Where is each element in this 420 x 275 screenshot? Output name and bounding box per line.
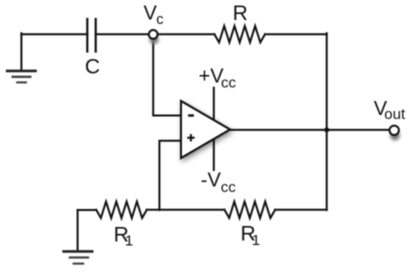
wire output	[230, 129, 390, 131]
resistor R1 (right)	[225, 202, 276, 218]
wire R1 right to right rail	[275, 209, 327, 211]
svg-text:R: R	[233, 2, 248, 25]
wire inverting input from node Vc	[153, 39, 180, 116]
ground (top-left)	[7, 71, 35, 83]
svg-text:1: 1	[125, 233, 133, 250]
wire ground drop top-left	[20, 33, 22, 70]
wire +Vcc supply lead	[213, 88, 215, 125]
capacitor C	[87, 19, 95, 52]
wire R1 left to junction to R1 right	[147, 209, 225, 211]
wire non-inverting input from R1 junction	[159, 141, 180, 210]
wire resistor R to right rail	[265, 33, 327, 35]
svg-text:cc: cc	[221, 75, 237, 92]
resistor R1 (left)	[96, 202, 147, 218]
wire top rail left	[21, 33, 87, 35]
resistor R	[214, 26, 265, 42]
wire node Vc to resistor R	[158, 33, 215, 35]
wire right rail vertical	[326, 33, 328, 210]
output terminal circle	[390, 131, 400, 141]
svg-text:cc: cc	[221, 179, 237, 196]
op-amp non-inverting pin +	[187, 134, 195, 141]
ground (bottom-left)	[64, 251, 93, 263]
node Vc terminal circle	[149, 35, 158, 44]
wire ground drop bottom-left	[77, 210, 79, 251]
svg-text:out: out	[384, 106, 406, 123]
junction dot output node	[324, 127, 329, 132]
op-amp U1	[181, 101, 230, 158]
wire capacitor to node Vc	[96, 33, 149, 35]
svg-text:1: 1	[252, 232, 260, 249]
wire -Vcc supply lead	[213, 135, 215, 170]
svg-text:-V: -V	[201, 169, 222, 191]
svg-text:c: c	[156, 12, 163, 28]
svg-text:C: C	[85, 56, 100, 79]
op-amp inverting pin -	[188, 114, 194, 116]
wire bottom rail left	[78, 209, 97, 211]
